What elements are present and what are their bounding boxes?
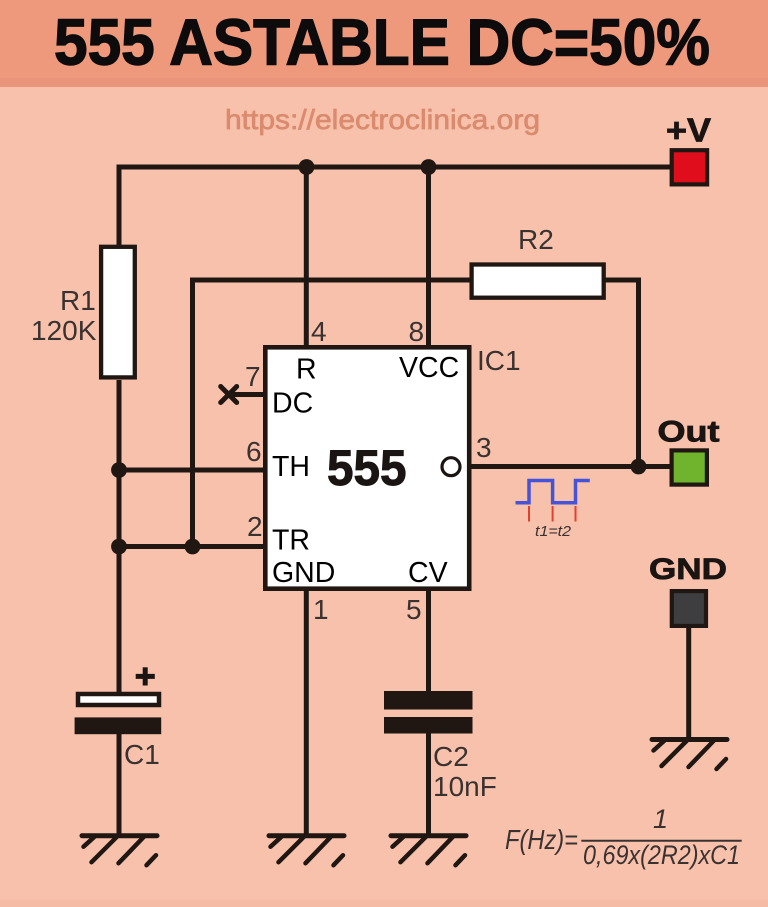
banner shadow strip — [0, 78, 768, 87]
wire: DC (pin 7) stub — [229, 392, 266, 397]
svg-text:C2: C2 — [433, 741, 469, 772]
terminal +V red square — [672, 150, 707, 184]
svg-text:1: 1 — [313, 594, 329, 625]
wire: GND terminal down to ground — [686, 626, 691, 740]
ground under C1 — [82, 836, 157, 866]
waveform period ticks — [529, 506, 576, 522]
terminal Out green square — [672, 450, 707, 484]
svg-text:120K: 120K — [31, 315, 97, 346]
svg-text:t1=t2: t1=t2 — [535, 523, 572, 540]
svg-text:C1: C1 — [124, 739, 160, 770]
resistor R1 — [101, 247, 135, 378]
svg-text:5: 5 — [406, 594, 422, 625]
svg-text:2: 2 — [247, 511, 263, 542]
wire: TR (pin 2) horizontal — [119, 544, 266, 549]
svg-text:https://electroclinica.org: https://electroclinica.org — [225, 104, 540, 135]
op-amp/timer IC1 555 body — [265, 347, 469, 588]
svg-text:555 ASTABLE DC=50%: 555 ASTABLE DC=50% — [54, 6, 710, 79]
svg-text:7: 7 — [245, 361, 261, 392]
bottom strip — [0, 900, 768, 907]
svg-text:R1: R1 — [60, 285, 96, 316]
capacitor C1 (polarized) — [75, 667, 162, 734]
svg-text:GND: GND — [649, 553, 727, 586]
wire: TH (pin 6) horizontal — [119, 468, 266, 473]
svg-text:1: 1 — [653, 804, 668, 834]
node: TH junction on left rail — [111, 462, 127, 478]
svg-text:R: R — [296, 354, 317, 386]
node: +V rail junction at pin 4 — [299, 159, 315, 175]
output bubble pin 3 — [442, 458, 460, 476]
formula fraction bar — [581, 840, 741, 842]
ground under GND terminal — [652, 740, 727, 770]
resistor R2 — [472, 265, 604, 298]
node: TR junction at branch — [185, 539, 201, 555]
no-connect X on pin 7 — [221, 387, 237, 403]
title banner — [0, 0, 768, 78]
square-wave icon — [516, 481, 590, 503]
node: output junction — [631, 459, 647, 475]
svg-text:IC1: IC1 — [477, 345, 521, 376]
wire: R2 left horizontal — [190, 278, 474, 283]
svg-text:0,69x(2R2)xC1: 0,69x(2R2)xC1 — [583, 840, 740, 870]
wire: R2 right to output node — [604, 280, 639, 467]
svg-text:+V: +V — [666, 112, 711, 149]
svg-text:10nF: 10nF — [433, 771, 497, 802]
wire: C1 bottom to ground — [117, 730, 122, 836]
svg-text:4: 4 — [311, 316, 327, 347]
svg-text:8: 8 — [409, 316, 425, 347]
ground under pin 1 — [269, 836, 344, 866]
svg-text:Out: Out — [658, 416, 720, 449]
svg-text:6: 6 — [246, 436, 262, 467]
wire: pin 1 down to ground — [304, 588, 309, 836]
wire: vertical branch to R2 row — [190, 280, 195, 547]
capacitor C2 — [384, 691, 473, 734]
wire: +V rail top horizontal with R1 corner — [119, 167, 670, 246]
node: TR junction on left rail — [111, 539, 127, 555]
wire: C2 bottom to ground — [426, 730, 431, 836]
wire: pin 4 vertical from +V rail — [304, 167, 309, 347]
svg-text:F(Hz)=: F(Hz)= — [505, 824, 578, 855]
wire: R1 bottom down to C1 — [117, 380, 122, 694]
wire: pin 3 output horizontal — [469, 464, 671, 469]
svg-text:TH: TH — [272, 451, 310, 483]
svg-text:GND: GND — [272, 557, 335, 589]
svg-text:3: 3 — [476, 432, 492, 463]
ground under C2 — [391, 836, 466, 866]
svg-text:R2: R2 — [518, 224, 554, 255]
svg-text:CV: CV — [408, 557, 448, 589]
svg-text:VCC: VCC — [399, 352, 459, 384]
terminal GND grey square — [672, 591, 706, 626]
svg-text:TR: TR — [272, 525, 310, 557]
wire: pin 5 down to C2 — [426, 589, 431, 695]
svg-text:555: 555 — [327, 440, 407, 496]
node: +V rail junction at pin 8 — [421, 159, 437, 175]
svg-text:DC: DC — [272, 388, 313, 420]
wire: pin 8 vertical from +V rail — [426, 167, 431, 347]
